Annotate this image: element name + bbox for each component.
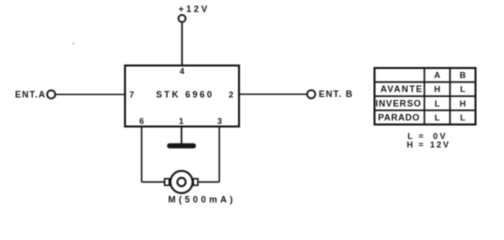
svg-text:L: L	[435, 112, 440, 122]
svg-text:7: 7	[129, 90, 134, 100]
svg-text:M(500mA): M(500mA)	[168, 195, 236, 205]
svg-text:2: 2	[229, 90, 234, 100]
svg-text:INVERSO: INVERSO	[375, 98, 421, 108]
svg-text:3: 3	[217, 116, 222, 126]
svg-text:ENT. B: ENT. B	[319, 89, 354, 99]
svg-text:L: L	[460, 84, 465, 94]
svg-text:L: L	[435, 98, 440, 108]
svg-text:PARADO: PARADO	[378, 112, 420, 122]
svg-text:+12V: +12V	[179, 4, 210, 14]
svg-text:ENT.A: ENT.A	[15, 89, 46, 99]
svg-text:4: 4	[180, 66, 185, 76]
svg-text:1: 1	[179, 116, 184, 126]
svg-text:AVANTE: AVANTE	[380, 84, 423, 94]
svg-text:H: H	[434, 84, 440, 94]
svg-text:B: B	[460, 70, 466, 80]
svg-text:A: A	[434, 70, 440, 80]
svg-text:L: L	[460, 112, 465, 122]
svg-text:H: H	[460, 98, 466, 108]
svg-text:6: 6	[139, 116, 144, 126]
svg-text:STK 6960: STK 6960	[156, 90, 214, 100]
